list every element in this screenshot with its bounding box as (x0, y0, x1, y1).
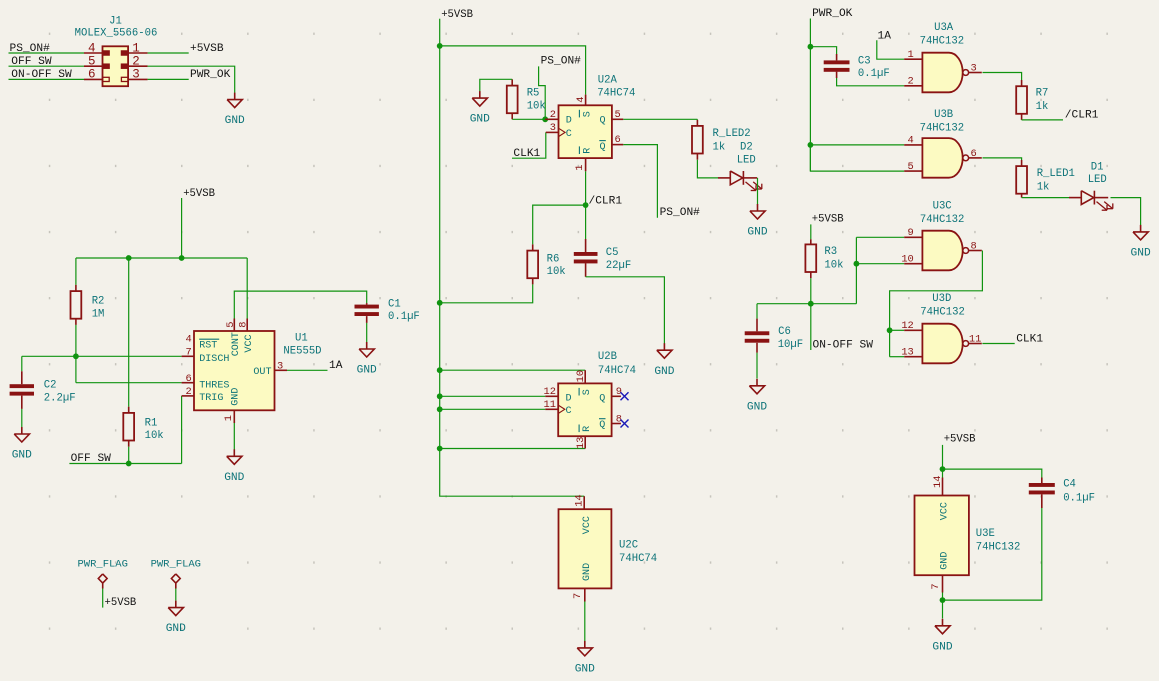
svg-text:5: 5 (88, 55, 96, 69)
svg-text:NE555D: NE555D (283, 346, 321, 358)
wire PWR_OK to C3 (810, 47, 836, 61)
R_LED2 value labels R_LED2 1k (713, 128, 751, 153)
svg-text:1k: 1k (713, 141, 726, 153)
svg-text:1: 1 (908, 49, 914, 61)
wire U3B out to R_LED1 (983, 158, 1022, 166)
svg-text:R_LED2: R_LED2 (713, 128, 751, 140)
wire 1A to U3A pin 1 (877, 40, 904, 59)
svg-text:GND: GND (166, 623, 186, 635)
svg-text:8: 8 (238, 321, 250, 327)
svg-text:3: 3 (971, 62, 977, 74)
node +5VSB at PWR_FLAG (105, 597, 137, 609)
svg-text:R7: R7 (1036, 88, 1049, 100)
svg-text:4: 4 (575, 97, 587, 103)
svg-text:MOLEX_5566-06: MOLEX_5566-06 (75, 28, 158, 40)
svg-text:10: 10 (575, 370, 587, 382)
wire OFF SW net (69, 463, 181, 465)
node 1A above U3A (878, 30, 892, 42)
svg-text:1A: 1A (878, 30, 892, 42)
svg-text:1: 1 (223, 415, 235, 421)
node PS_ON# above U2A (541, 55, 582, 67)
R3 value labels R3 10k (824, 246, 843, 271)
C4 value labels C4 0.1uF (1063, 478, 1095, 504)
junction U3E pin 7 / C4 (940, 597, 946, 603)
U3E pin numbers 14 7 (930, 476, 944, 590)
resistor R1 (123, 413, 134, 441)
U3D value 74HC132 (920, 307, 965, 319)
U3C value 74HC132 (920, 214, 965, 226)
power +5VSB above 555 (182, 188, 215, 258)
wire J1 pin 1 to +5VSB (148, 52, 189, 54)
svg-text:C: C (566, 129, 572, 140)
wire C2 bottom to ground (21, 396, 23, 428)
svg-text:13: 13 (575, 437, 587, 449)
wire J1 pin 3 to PWR_OK (148, 78, 189, 80)
nand gate U3A (904, 53, 982, 93)
J1 pin numbers 4 5 6 1 2 3 (88, 41, 140, 81)
svg-text:VCC: VCC (244, 334, 255, 352)
U2B reference U2B (598, 351, 617, 363)
op-amp U1 NE555D body (194, 331, 275, 410)
ground GND below C1 (357, 342, 377, 377)
svg-text:S: S (582, 389, 593, 395)
wire junction to ground (942, 600, 944, 618)
svg-text:7: 7 (930, 583, 942, 589)
D1 reference D1 (1091, 161, 1104, 173)
svg-text:10: 10 (901, 254, 913, 266)
svg-text:C2: C2 (44, 380, 57, 392)
U3C reference U3C (933, 200, 952, 212)
C1 value labels C1 0.1uF (388, 298, 420, 323)
wire U2A pin 1 to CLR node (585, 158, 587, 205)
svg-text:74HC132: 74HC132 (920, 36, 965, 48)
svg-text:THRES: THRES (199, 381, 229, 392)
wire CLR node down to C5 (585, 205, 587, 252)
svg-text:R: R (582, 148, 593, 154)
svg-text:1: 1 (132, 41, 140, 55)
capacitor C6 (745, 331, 770, 342)
svg-text:+5VSB: +5VSB (441, 9, 473, 21)
ground GND below C2 (12, 427, 32, 462)
node ON-OFF SW right (813, 339, 874, 351)
wire PWR_OK to U3B pin 5 (810, 145, 904, 171)
wire R_LED1 to D1 (1022, 194, 1069, 198)
wire +5VSB rail above 555 (76, 257, 247, 259)
ground GND below J1 (225, 93, 245, 128)
svg-text:VCC: VCC (582, 516, 593, 534)
junction DISCH node (73, 353, 79, 359)
ground GND below C6 (747, 379, 767, 414)
U2B value 74HC74 (598, 365, 636, 377)
svg-text:74HC132: 74HC132 (920, 123, 965, 135)
D2 reference D2 (740, 141, 753, 153)
junction PWR_OK / U3B pin 4 (808, 142, 814, 148)
svg-text:DISCH: DISCH (199, 354, 229, 365)
wire CLK1 to U2A pin 3 (512, 132, 559, 158)
svg-text:GND: GND (357, 365, 377, 377)
resistor R3 (805, 244, 816, 272)
junction +5VSB rail / +5VSB drop (179, 255, 185, 261)
svg-text:U1: U1 (295, 333, 308, 345)
svg-text:U3B: U3B (934, 109, 953, 121)
svg-text:D2: D2 (740, 141, 753, 153)
svg-text:GND: GND (654, 366, 674, 378)
svg-text:R3: R3 (824, 246, 837, 258)
svg-text:+5VSB: +5VSB (812, 213, 844, 225)
U2B pin 8 stub and no-connect (612, 420, 629, 428)
D1 value LED (1088, 174, 1107, 186)
svg-text:C: C (566, 406, 572, 417)
svg-text:Q: Q (599, 394, 605, 405)
wire U1 pin 1 GND (233, 410, 235, 449)
svg-text:12: 12 (544, 386, 556, 398)
svg-text:6: 6 (88, 68, 96, 82)
svg-text:GND: GND (747, 227, 767, 239)
R6 value labels R6 10k (547, 253, 566, 278)
U3A pin numbers 1 2 3 (908, 49, 977, 88)
svg-text:74HC74: 74HC74 (619, 553, 657, 565)
svg-text:PWR_FLAG: PWR_FLAG (77, 558, 127, 570)
svg-text:11: 11 (544, 399, 556, 411)
svg-text:GND: GND (12, 450, 32, 462)
junction PWR_OK / C3 (808, 44, 814, 50)
svg-text:7: 7 (186, 347, 192, 359)
wire bus to U2B pin 11 (440, 408, 559, 410)
node CLK1 at U2A clock (513, 148, 540, 160)
svg-text:VCC: VCC (940, 502, 951, 520)
C2 value labels C2 2.2uF (44, 380, 76, 405)
svg-text:CLK1: CLK1 (1016, 333, 1043, 345)
wire C2 top (21, 356, 23, 384)
svg-text:1M: 1M (92, 308, 105, 320)
wire to U3D pin 12 (890, 329, 905, 331)
svg-text:PS_ON#: PS_ON# (660, 207, 701, 219)
svg-text:OFF SW: OFF SW (11, 56, 52, 68)
wire rail down to R2 (75, 258, 77, 291)
wire TRIG net to U1 pin 2 (182, 396, 194, 464)
svg-text:10k: 10k (547, 266, 566, 278)
resistor R6 (527, 251, 538, 279)
wire ON-OFF SW stub (810, 304, 812, 350)
wire bus to U2B pin 12 (440, 395, 559, 397)
junction +5VSB rail / R1 (126, 255, 132, 261)
svg-text:0.1µF: 0.1µF (388, 311, 420, 323)
ground GND below D1 (1131, 225, 1151, 260)
svg-text:/CLR1: /CLR1 (589, 195, 623, 207)
svg-text:U3A: U3A (934, 22, 954, 34)
svg-text:/CLR1: /CLR1 (1065, 110, 1099, 122)
ground GND below U3E (932, 619, 952, 654)
U2A pin numbers (550, 97, 621, 171)
R7 value labels R7 1k (1036, 88, 1049, 113)
capacitor C1 (355, 305, 379, 316)
U3E pin names VCC GND (940, 502, 951, 570)
U2A value 74HC74 (597, 87, 635, 99)
junction OFF SW / R1 (126, 461, 132, 467)
svg-text:0.1µF: 0.1µF (1063, 493, 1095, 505)
junction bus / U2B pin 13 (437, 446, 443, 452)
ground GND below PWR_FLAG (166, 601, 186, 636)
svg-text:6: 6 (186, 373, 192, 385)
node PS_ON# (10, 43, 51, 55)
wire U2A Qbar pin 6 to PS_ON# (612, 145, 658, 218)
svg-text:12: 12 (901, 320, 913, 332)
power unit U3E body (915, 496, 969, 576)
svg-text:1k: 1k (1036, 101, 1049, 113)
svg-text:2: 2 (132, 55, 140, 69)
svg-text:GND: GND (940, 552, 951, 570)
svg-text:TRIG: TRIG (199, 393, 223, 404)
wire PS_ON# to U2A pin 2 net (539, 66, 546, 119)
svg-text:S: S (582, 111, 593, 117)
svg-text:U3C: U3C (933, 200, 952, 212)
U2B pin numbers (544, 370, 622, 449)
svg-text:LED: LED (737, 154, 756, 166)
R5 value labels R5 10k (527, 88, 546, 113)
junction bus / U2B pin 11 (437, 406, 443, 412)
node /CLR1 at junction (589, 195, 623, 207)
U2C value 74HC74 (619, 553, 657, 565)
U3B pin numbers 4 5 6 (908, 135, 977, 173)
power flag PWR_FLAG on GND (151, 558, 201, 588)
U3E reference U3E (976, 528, 995, 540)
wire bus corner into U2C pin 14 (583, 496, 585, 509)
svg-text:J1: J1 (109, 15, 122, 27)
wire D1 cathode to ground (1111, 198, 1141, 225)
svg-text:Q: Q (600, 116, 606, 127)
power +5VSB above R3 (811, 213, 844, 239)
svg-text:10µF: 10µF (778, 339, 803, 351)
svg-text:D: D (566, 394, 572, 405)
junction CLR1 node (583, 202, 589, 208)
wire R2 to DISCH node (75, 319, 77, 357)
svg-text:CONT: CONT (231, 332, 242, 356)
wire R5 bottom to D net (512, 113, 545, 119)
svg-text:+5VSB: +5VSB (944, 434, 976, 446)
node 1A at U1 output (329, 360, 343, 372)
svg-text:R1: R1 (145, 417, 158, 429)
wire to U3C pin 10 (856, 263, 904, 265)
svg-text:2: 2 (908, 76, 914, 88)
wire R3 bottom to rail (810, 272, 812, 304)
U1 pin numbers (186, 321, 284, 421)
svg-text:GND: GND (582, 563, 593, 581)
wire R_LED2 to D2 (697, 154, 718, 178)
U3A reference U3A (934, 22, 954, 34)
wire U3C input link (855, 237, 857, 303)
svg-text:74HC132: 74HC132 (920, 214, 965, 226)
LED D2 (718, 171, 762, 191)
wire U2C pin 7 to ground (584, 588, 586, 641)
U3E value 74HC132 (976, 542, 1021, 554)
node PWR_OK at J1 (190, 69, 231, 81)
capacitor C5 (574, 252, 598, 263)
svg-text:GND: GND (470, 114, 490, 126)
svg-text:14: 14 (932, 476, 944, 488)
wire U2A Q pin 5 to R_LED2 (612, 119, 698, 126)
svg-text:74HC74: 74HC74 (598, 365, 636, 377)
svg-text:11: 11 (969, 333, 981, 345)
svg-text:74HC74: 74HC74 (597, 87, 635, 99)
wire C5 bottom to ground (586, 263, 665, 343)
node /CLR1 right (1065, 110, 1099, 122)
svg-text:4: 4 (186, 333, 192, 345)
wire C6 top (756, 304, 758, 332)
wire U3E pin 7 to ground (942, 575, 944, 600)
flip-flop U2A body (559, 105, 612, 158)
svg-text:GND: GND (1131, 248, 1151, 260)
svg-text:U2B: U2B (598, 351, 617, 363)
svg-text:C1: C1 (388, 298, 401, 310)
U3D pin numbers 12 13 11 (901, 320, 981, 358)
svg-text:C4: C4 (1063, 478, 1076, 490)
junction +5VSB bus top (437, 43, 443, 49)
svg-text:10k: 10k (824, 259, 843, 271)
resistor R_LED2 (692, 126, 703, 154)
svg-text:74HC132: 74HC132 (976, 542, 1021, 554)
wire PWR_FLAG 1 (102, 589, 104, 608)
wire R7 bottom to /CLR1 (1022, 114, 1063, 120)
wire J1 pin 2 to GND (148, 66, 235, 93)
connector J1 MOLEX_5566-06 (84, 46, 148, 86)
node PS_ON# below D2 resistor (660, 207, 701, 219)
node OFF SW at 555 (71, 453, 112, 465)
wire C4 bottom to ground net (943, 494, 1042, 600)
junction U3C pin 10 (854, 261, 860, 267)
svg-text:U3D: U3D (932, 293, 951, 305)
svg-text:R_LED1: R_LED1 (1037, 168, 1075, 180)
wire PWR_OK vertical (809, 19, 811, 171)
U2C pin names VCC GND (582, 516, 593, 581)
wire ON-OFF SW to J1 pin 6 (9, 78, 85, 80)
ground GND below C5 (654, 343, 674, 378)
wire PWR_FLAG 2 (175, 589, 177, 601)
svg-text:U2C: U2C (619, 539, 638, 551)
R1 value labels R1 10k (145, 417, 164, 442)
svg-text:C6: C6 (778, 326, 791, 338)
C5 value labels C5 22uF (606, 247, 631, 272)
junction rail / R3 (808, 301, 814, 307)
wire U3D out CLK1 (982, 343, 1014, 345)
junction bus / U2B pin 12 (437, 393, 443, 399)
wire D2 cathode to ground (757, 178, 759, 205)
svg-text:D: D (566, 116, 572, 127)
wire PWR_OK to U3B pin 4 (810, 144, 904, 146)
J1 reference J1 (109, 15, 122, 27)
wire to U3C pin 9 (856, 236, 904, 238)
U3B reference U3B (934, 109, 953, 121)
svg-text:R2: R2 (92, 296, 105, 308)
U2B pin names D C S R Q Qbar (566, 388, 606, 432)
node OFF SW (11, 56, 52, 68)
svg-text:3: 3 (550, 122, 556, 134)
wire DISCH to THRES link (75, 356, 77, 382)
wire DISCH net: C2 to U1 pin 7 (22, 355, 194, 357)
resistor R5 (507, 86, 518, 114)
ground GND left of R5 (470, 91, 490, 126)
svg-text:2: 2 (550, 109, 556, 121)
svg-text:22µF: 22µF (606, 260, 631, 272)
nand gate U3B (904, 138, 982, 178)
wire C6 bottom to ground (756, 343, 758, 379)
node PWR_OK top right (812, 8, 853, 20)
svg-text:+5VSB: +5VSB (190, 43, 224, 55)
svg-text:Q: Q (599, 420, 605, 431)
wire R1 top from rail (128, 258, 130, 413)
svg-text:5: 5 (908, 161, 914, 173)
svg-text:+5VSB: +5VSB (183, 188, 215, 200)
U3A value 74HC132 (920, 36, 965, 48)
svg-text:4: 4 (88, 41, 96, 55)
svg-text:6: 6 (971, 148, 977, 160)
svg-text:C5: C5 (606, 247, 619, 259)
junction U3D pin 12 (887, 327, 893, 333)
svg-text:U3E: U3E (976, 528, 995, 540)
C3 value labels C3 0.1uF (858, 55, 890, 80)
capacitor C3 (824, 60, 850, 71)
node ON-OFF SW (11, 69, 72, 81)
svg-text:GND: GND (575, 664, 595, 676)
junction bus / U2B pin 10 (437, 367, 443, 373)
wire to U3D pin 13 (890, 356, 905, 358)
svg-text:2: 2 (186, 386, 192, 398)
nand gate U3D (904, 324, 982, 364)
wire THRES net to U1 pin 6 (76, 382, 194, 384)
svg-text:14: 14 (573, 494, 585, 506)
svg-text:GND: GND (932, 641, 952, 653)
wire into U2A pin 2 (545, 118, 558, 120)
flip-flop U2B body (558, 383, 611, 436)
R_LED1 value labels R_LED1 1k (1037, 168, 1075, 193)
U3B value 74HC132 (920, 123, 965, 135)
U2C reference U2C (619, 539, 638, 551)
svg-text:0.1µF: 0.1µF (858, 68, 890, 80)
svg-text:1k: 1k (1037, 181, 1050, 193)
wire CONT pin 5 to C1 (234, 291, 366, 331)
svg-text:RST: RST (199, 341, 217, 352)
wire CLR node to R6 (533, 205, 586, 251)
svg-text:10k: 10k (527, 100, 546, 112)
wire R1 bottom to OFF SW net (128, 441, 130, 464)
wire bus to U2B pin 10 (440, 370, 586, 383)
R2 value labels R2 1M (92, 296, 105, 321)
wire bus to U2A pin 4 (440, 46, 586, 105)
wire PS_ON# to J1 pin 4 (9, 52, 85, 54)
wire R5 top to ground hook (480, 79, 512, 91)
svg-text:PWR_FLAG: PWR_FLAG (151, 558, 201, 570)
wire C1 bottom to ground (366, 316, 368, 342)
power +5VSB top center (440, 9, 473, 46)
junction +5VSB / C4 (940, 466, 946, 472)
svg-text:R5: R5 (527, 88, 540, 100)
wire C3 bottom to U3A pin 2 (837, 72, 905, 86)
node +5VSB at J1 (190, 43, 224, 55)
svg-text:GND: GND (225, 115, 245, 127)
svg-text:ON-OFF SW: ON-OFF SW (11, 69, 72, 81)
U2A reference U2A (598, 75, 618, 87)
svg-text:ON-OFF SW: ON-OFF SW (813, 339, 874, 351)
U2C pin numbers 14 7 (572, 494, 585, 599)
svg-text:2.2µF: 2.2µF (44, 392, 76, 404)
svg-text:GND: GND (747, 401, 767, 413)
svg-text:PS_ON#: PS_ON# (10, 43, 51, 55)
svg-text:+5VSB: +5VSB (105, 597, 137, 609)
node CLK1 right (1016, 333, 1043, 345)
power flag PWR_FLAG on +5VSB (77, 558, 127, 588)
U2B pin 9 stub and no-connect (612, 392, 629, 400)
svg-text:Q: Q (600, 142, 606, 153)
ground GND below U1 (224, 449, 244, 484)
